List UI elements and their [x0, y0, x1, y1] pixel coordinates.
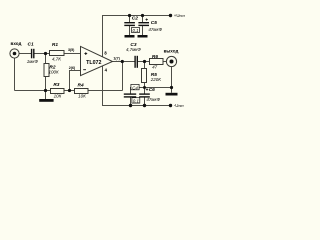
svg-text:3(5): 3(5): [68, 48, 75, 52]
svg-text:R4: R4: [78, 82, 84, 88]
wire C3 to R6: [138, 61, 150, 63]
op-amp U1 TL072: [81, 46, 113, 75]
wire C2 top stem: [129, 16, 131, 23]
node C6 bottom rail junction: [143, 104, 146, 107]
svg-text:47мкФ: 47мкФ: [146, 97, 160, 102]
ground bar bottom-left: [39, 99, 53, 102]
wire C6 top stem: [144, 88, 146, 95]
svg-text:вход: вход: [11, 41, 22, 46]
svg-text:TL072: TL072: [86, 60, 101, 66]
svg-text:C5: C5: [151, 20, 157, 26]
wire C5 bottom stem: [142, 26, 144, 36]
svg-text:220К: 220К: [150, 77, 162, 82]
svg-text:R3: R3: [53, 82, 59, 88]
node R5/C6 ground junction: [143, 86, 146, 89]
wire C6 bottom stem: [144, 97, 146, 106]
resistor R6: [150, 54, 164, 69]
node R3-R4 junction: [68, 89, 71, 92]
svg-text:выход: выход: [164, 49, 179, 54]
capacitor C5: [138, 14, 162, 32]
wire C2 bottom stem: [129, 26, 131, 36]
svg-text:10К: 10К: [78, 94, 86, 99]
svg-text:-Uпит: -Uпит: [174, 103, 184, 108]
node jack ground junction: [170, 86, 173, 89]
wire R1 to op-amp +input: [64, 53, 81, 55]
wire op-amp pin 8 to top rail: [103, 16, 171, 57]
terminal +Upit: [169, 13, 186, 18]
svg-text:R1: R1: [52, 42, 58, 48]
node C4 bottom rail junction: [129, 104, 132, 107]
svg-text:C6: C6: [149, 87, 155, 93]
wire R6 to output jack: [163, 61, 167, 63]
svg-text:47мкФ: 47мкФ: [148, 27, 162, 32]
svg-text:4,7мкФ: 4,7мкФ: [126, 47, 141, 52]
capacitor C2: [124, 14, 139, 33]
capacitor C1: [27, 42, 39, 65]
wire inverting input riser: [70, 71, 81, 91]
input jack X1: [10, 41, 22, 58]
resistor R5: [142, 69, 162, 83]
capacitor C3: [126, 42, 141, 68]
wire C1 to node A: [34, 53, 50, 55]
capacitor C4: [124, 84, 140, 103]
wire input jack ground down: [14, 58, 16, 90]
wire output jack ground stem: [171, 66, 173, 93]
wire R5 top stem: [144, 62, 146, 69]
wire bottom ground/feedback line: [15, 90, 123, 92]
node C3-R6 junction: [143, 60, 146, 63]
resistor R4: [75, 82, 89, 98]
ground under C5: [138, 35, 148, 38]
svg-text:10К: 10К: [54, 93, 62, 98]
svg-text:+Uпит: +Uпит: [174, 13, 186, 18]
node A junction after C1: [44, 52, 47, 55]
wire R5 bottom stem: [144, 83, 146, 88]
wire op-amp output to C3: [113, 61, 135, 63]
wire R2 top stem: [45, 54, 47, 64]
svg-text:1(7): 1(7): [113, 57, 120, 61]
svg-text:R6: R6: [152, 54, 158, 60]
ground bar under output jack: [166, 93, 178, 96]
terminal -Upit: [169, 103, 184, 108]
svg-text:0,1: 0,1: [133, 98, 140, 103]
wire ground line mid-right with C4 top stem: [131, 88, 172, 95]
svg-text:100К: 100К: [49, 70, 60, 75]
svg-text:47: 47: [152, 64, 158, 69]
svg-text:C1: C1: [28, 42, 34, 48]
svg-text:2(6): 2(6): [69, 66, 76, 70]
svg-text:0,1: 0,1: [133, 28, 140, 33]
wire input jack to C1: [19, 53, 31, 55]
svg-text:C2: C2: [132, 15, 138, 21]
resistor R2: [44, 64, 59, 77]
wire feedback riser to output: [122, 62, 124, 91]
wire R2 bottom stem: [45, 77, 47, 91]
wire C5 top stem: [142, 16, 144, 23]
output jack X2: [164, 49, 179, 67]
wire op-amp pin 4 to bottom rail: [103, 66, 171, 106]
svg-text:C4: C4: [132, 85, 138, 90]
resistor R3: [51, 82, 65, 98]
ground under C2: [125, 35, 135, 38]
svg-text:4,7К: 4,7К: [52, 57, 61, 62]
wire ground stub bottom-left: [45, 91, 47, 100]
node R2 bottom junction: [44, 89, 47, 92]
svg-text:1мкФ: 1мкФ: [27, 59, 39, 64]
capacitor C6: [139, 87, 160, 102]
wire C4 bottom stem: [130, 97, 132, 106]
resistor R1: [50, 42, 65, 62]
node output junction: [121, 60, 124, 63]
